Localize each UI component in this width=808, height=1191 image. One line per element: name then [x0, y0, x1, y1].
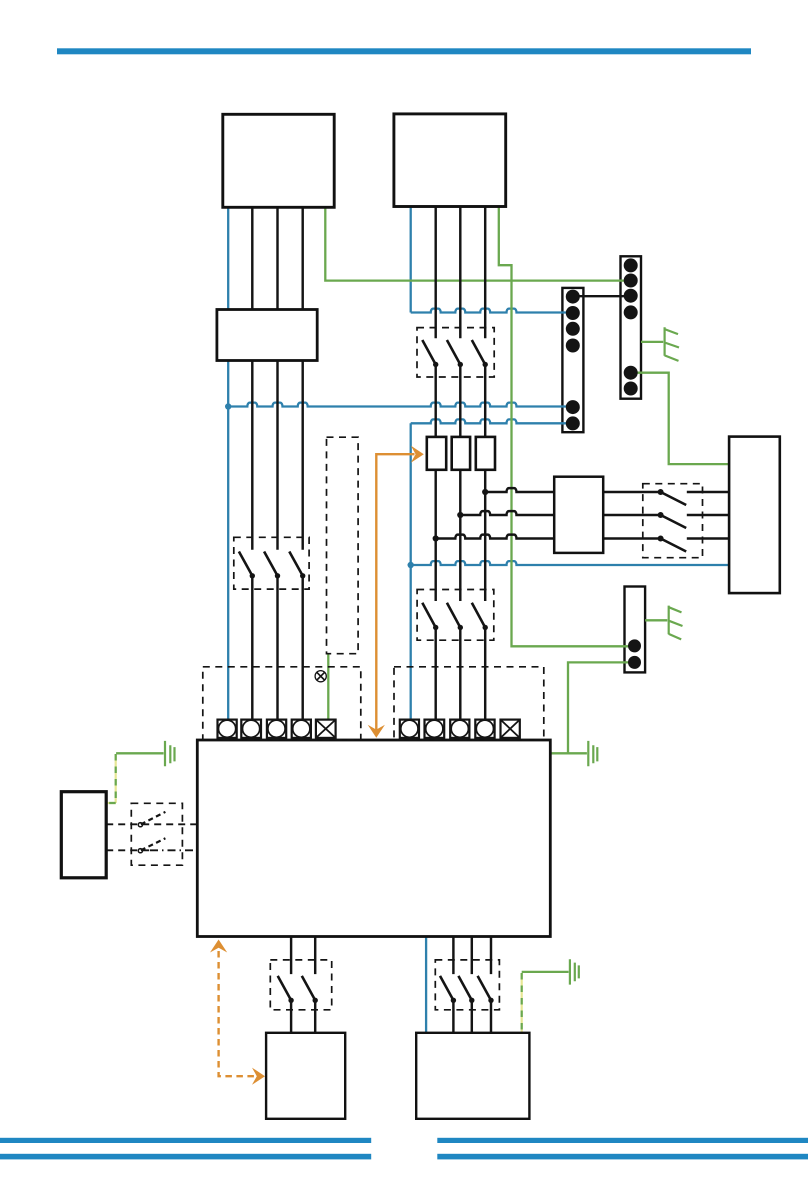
footer bar left bottom: [0, 1154, 371, 1160]
dashed box terminal group right: [394, 667, 544, 740]
box motor bottom-right: [416, 1033, 529, 1119]
terminal T5 PE crossed: [316, 720, 336, 738]
dashed box switch K contacts: [131, 803, 182, 865]
fuse F3: [476, 437, 495, 470]
dashed box cable duct tall: [327, 437, 359, 654]
switch blade K2 dashed: [141, 838, 166, 850]
terminal T2: [241, 720, 261, 738]
wire green PE stub to terminal T5: [327, 654, 329, 723]
switch dots Q4: [658, 489, 664, 495]
wire black big box to bottom-left box: [291, 937, 315, 1033]
terminal T6: [400, 720, 419, 738]
terminal strip X3 (lower): [625, 587, 646, 673]
dashed box switch Q4 CT output: [643, 484, 703, 558]
earth E1 left of main box: [165, 741, 175, 766]
box junction left column: [217, 310, 317, 361]
pivot circles K contacts: [138, 823, 142, 827]
header bar: [57, 48, 751, 54]
arrow orange dashed bottom path: [219, 951, 256, 1076]
switch blades Q5: [278, 976, 316, 1000]
terminal strip X1 (left): [562, 288, 583, 432]
switch blades Q4 horizontal: [661, 492, 687, 552]
wire black right column through fuses: [436, 365, 486, 602]
terminals X3 circles: [628, 639, 641, 652]
box generator G2 top-right: [394, 114, 506, 207]
junction dot CT line 2: [457, 512, 463, 518]
fuse F2: [452, 437, 470, 470]
wire black right column lower: [436, 628, 486, 720]
wire green earth E3 lead: [522, 971, 569, 973]
junction dot blue left bus: [225, 403, 231, 409]
wire black CT line 1 y492: [485, 488, 660, 492]
wire dashed control line 1: [106, 823, 197, 825]
wire black CT line 3 y538.5: [436, 535, 661, 539]
chassis ground CG1 at strip X2: [665, 327, 679, 361]
wire blue L1 phase down left column: [227, 207, 229, 720]
dashed box switch Q5 bottom-left: [270, 960, 331, 1010]
wire blue big box to bottom right box: [425, 937, 427, 1033]
terminal strip X2 (right): [621, 256, 642, 398]
earth E2 right of main box: [588, 741, 597, 766]
lamp symbol circled-X: [315, 671, 326, 682]
switch blades Q6: [440, 976, 491, 1000]
box load right: [729, 437, 780, 593]
box motor bottom-left: [266, 1033, 345, 1119]
terminal T10 PE crossed: [501, 720, 520, 738]
switch dots Q2: [433, 362, 438, 367]
wire blue vertical to terminal T6: [410, 423, 412, 719]
wire green strip X2 to chassis ground: [641, 341, 663, 343]
wire black strip link X1-X2: [573, 295, 630, 297]
wire green big box to earth E2: [550, 752, 587, 754]
wire black CT lines to right box: [687, 492, 729, 539]
arrowhead orange right into bottom-left box: [252, 1068, 265, 1085]
box CT transformer: [554, 477, 603, 553]
switch blades Q1: [239, 552, 303, 576]
wire green earth E1 lead: [116, 752, 164, 754]
terminal T4: [292, 720, 311, 738]
wire black right column upper: [436, 207, 486, 339]
footer bar left top: [0, 1138, 371, 1143]
wire black CT line 2 y515: [460, 511, 660, 515]
box generator G1 top-left: [223, 114, 334, 207]
switch blades Q3: [422, 603, 485, 628]
junction dot CT line 1: [482, 489, 488, 495]
dashed box switch Q6 bottom-right: [435, 960, 499, 1010]
arrowhead orange down into big box: [368, 725, 385, 738]
wire green from L1 box to strip X2: [325, 207, 628, 281]
terminal T1: [218, 720, 237, 738]
chassis ground CG2 at strip X3: [669, 606, 683, 640]
footer bar right bottom: [437, 1154, 808, 1160]
wire PE green-yellow dashed left: [107, 754, 116, 803]
wire black L2-L4 left column upper: [252, 207, 302, 550]
terminal T7: [425, 720, 445, 738]
wire green strip X3 to chassis ground: [645, 619, 667, 621]
wire black left column lower: [252, 576, 302, 720]
terminals X2 circles: [624, 258, 638, 272]
footer bar right top: [437, 1138, 808, 1143]
earth E3 bottom right: [570, 959, 579, 984]
wire blue bus B3 y423.3: [411, 419, 572, 423]
terminals X1 circles: [566, 290, 580, 304]
switch dots Q5: [288, 998, 293, 1003]
switch dots Q6: [451, 998, 456, 1003]
dashed box switch Q2 right-top: [417, 328, 494, 377]
junction dot blue B4: [408, 562, 414, 568]
arrow orange solid measuring path: [376, 454, 414, 732]
switch dots Q3: [433, 625, 438, 630]
terminal T3: [267, 720, 286, 738]
wire blue bus B4 y565: [411, 561, 729, 565]
switch dots Q1: [250, 573, 255, 578]
wire dashed control line 2: [106, 849, 150, 851]
dashed box switch Q1 left: [234, 537, 309, 589]
dashed box terminal group left: [203, 667, 361, 740]
fuse F1: [427, 437, 446, 470]
box main cabinet: [197, 740, 550, 937]
arrowhead orange right into fuse: [411, 446, 424, 463]
switch blades Q2: [422, 340, 485, 365]
junction dot CT line 3: [433, 535, 439, 541]
dashed box switch Q3 mid-right: [417, 590, 494, 641]
box controller small left: [61, 792, 106, 878]
wire green from R1 box down to strip X3: [499, 207, 629, 647]
wire blue bus B2 y312.5: [411, 309, 572, 313]
wire blue bus B1 y406.5: [228, 403, 572, 407]
wire green strip X3 lower circle to earth: [568, 662, 629, 753]
wire green strip X2 to right box: [637, 373, 729, 464]
wire blue from R1 box down: [410, 207, 412, 313]
terminal T9: [475, 720, 494, 738]
wire PE green-yellow dashed bottom right: [521, 973, 523, 1033]
wire black big box to bottom-right box: [453, 937, 491, 1033]
switch blade K1 dashed: [141, 812, 166, 824]
terminal T8: [450, 720, 469, 738]
arrowhead orange up into big box bottom: [210, 940, 227, 953]
